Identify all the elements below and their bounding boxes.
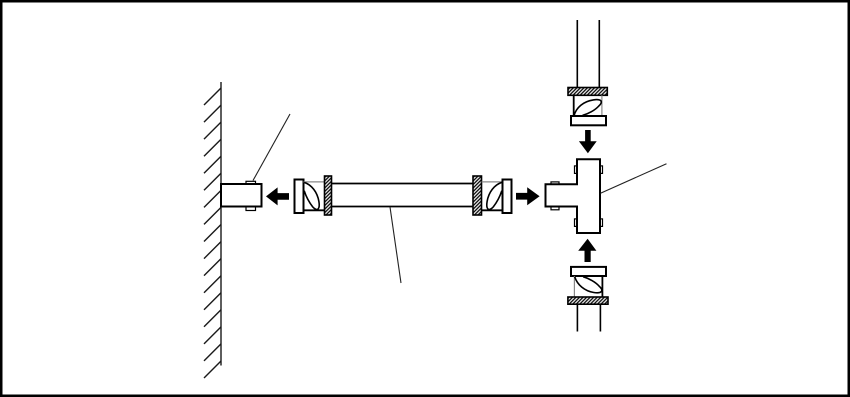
right swoosh	[487, 182, 502, 209]
up arrow	[578, 239, 596, 262]
right coupling band	[473, 176, 482, 215]
leader line to tee	[601, 164, 667, 194]
top coupling band	[568, 88, 607, 96]
pipe body	[332, 183, 474, 185]
bottom pipe assembly: cap	[571, 267, 606, 276]
wall fitting (female adapter)	[221, 181, 262, 210]
top segment	[573, 95, 575, 116]
down arrow	[579, 130, 597, 153]
top swoosh	[574, 100, 601, 116]
bottom pipe	[576, 304, 578, 331]
left swoosh	[304, 182, 319, 209]
leader line to wall fitting	[253, 114, 290, 181]
top pipe assembly	[576, 20, 578, 88]
left coupling band	[325, 176, 332, 215]
right arrow	[516, 187, 540, 205]
bottom swoosh	[575, 277, 602, 293]
left segment	[304, 181, 325, 183]
bottom coupling band	[568, 297, 608, 304]
wall	[204, 82, 221, 378]
left arrow	[266, 187, 289, 205]
tee fitting	[546, 159, 603, 233]
pipe assembly: left cap	[295, 180, 304, 214]
bottom segment	[573, 276, 575, 297]
right cap	[503, 180, 512, 214]
right segment	[482, 181, 503, 183]
leader line to pipe	[390, 207, 401, 283]
top cap	[571, 116, 606, 125]
